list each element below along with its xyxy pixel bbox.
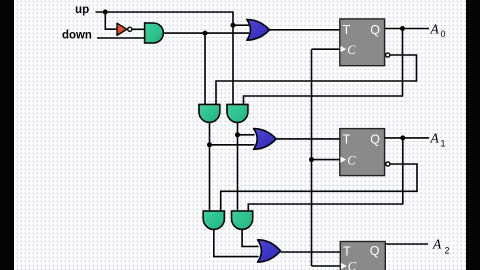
wire clock vertical xyxy=(311,49,313,266)
right pillar bar xyxy=(466,0,480,270)
AND gate AND2b (up chain) xyxy=(227,104,248,122)
svg-text:A: A xyxy=(432,236,442,251)
wire up vertical to AND2b input xyxy=(232,25,234,105)
wire Q2 to A2 xyxy=(385,243,428,245)
wire AND3a out to OR3 lower input xyxy=(214,229,259,256)
junction AND1-out branch xyxy=(203,31,208,36)
svg-text:Q: Q xyxy=(370,244,380,258)
wire Q1 feedback to AND3b xyxy=(248,138,402,212)
svg-text:T: T xyxy=(343,245,351,259)
svg-text:Q: Q xyxy=(370,133,380,147)
wire AND2b branch down to AND3b xyxy=(237,135,239,212)
wire to OR1 upper input xyxy=(233,24,249,26)
svg-text:down: down xyxy=(62,28,92,42)
AND gate AND1 (not-up AND down) xyxy=(145,23,164,43)
wire AND2a out to OR2 lower input xyxy=(210,122,255,145)
junction up-OR1 xyxy=(231,23,236,28)
svg-text:2: 2 xyxy=(445,246,450,256)
flip-flop U1 (T flip-flop, bit A0) xyxy=(340,19,385,66)
AND gate AND3a (down chain) xyxy=(203,211,224,229)
wire clock stub FF3 C xyxy=(312,265,341,267)
OR gate OR1 xyxy=(247,19,270,40)
svg-text:C: C xyxy=(347,43,356,57)
wire OR3 out to FF3 T xyxy=(281,251,341,253)
wire AND2b out to OR2 upper input xyxy=(238,122,255,135)
svg-text:A: A xyxy=(430,131,440,146)
wire clock stub FF2 C xyxy=(312,159,341,161)
wire clock stub FF1 C xyxy=(312,48,341,50)
wire Qbar0 feedback to AND2a xyxy=(216,55,417,105)
svg-text:up: up xyxy=(75,2,89,16)
svg-text:T: T xyxy=(343,133,351,147)
svg-text:Q: Q xyxy=(370,23,380,37)
wire Qbar1 feedback to AND3a xyxy=(221,164,417,212)
flip-flop U2 (T flip-flop, bit A1) xyxy=(340,129,385,176)
wire up vertical drop to OR1 branch xyxy=(232,11,234,25)
svg-text:T: T xyxy=(343,23,351,37)
wire AND1 out to OR1 lower input xyxy=(163,32,249,34)
AND gate AND3b (up chain) xyxy=(232,211,253,229)
svg-text:C: C xyxy=(347,154,356,168)
svg-text:A: A xyxy=(430,21,440,36)
junction AND2b-out xyxy=(235,132,240,137)
junction Q0 xyxy=(400,26,405,31)
wire AND2a branch down to AND3a xyxy=(209,145,211,212)
junction up-branch xyxy=(103,10,108,15)
wire OR1 out to FF1 T xyxy=(270,29,341,31)
wire Q1 to A1 xyxy=(385,137,429,139)
svg-text:0: 0 xyxy=(441,29,446,39)
AND gate AND2a (down chain) xyxy=(199,104,220,122)
wire up horizontal to corner xyxy=(96,11,234,13)
inverter NOT1 xyxy=(117,23,132,35)
wire OR2 out to FF2 T xyxy=(276,138,340,140)
wire Q0 to A0 xyxy=(385,28,429,30)
wire down to AND1 lower input xyxy=(97,37,145,39)
OR gate OR2 xyxy=(254,129,277,150)
pin Qbar bubble U2 xyxy=(386,162,390,166)
svg-text:1: 1 xyxy=(441,138,446,148)
wire AND3b out to OR3 upper input xyxy=(242,229,258,246)
wire AND1 branch down to AND2a input xyxy=(204,33,206,105)
wire branch down to inverter input xyxy=(105,12,117,29)
junction Q1 xyxy=(400,135,405,140)
wire Q0 feedback to AND2b xyxy=(244,29,403,106)
svg-text:C: C xyxy=(348,259,357,270)
flip-flop U3 (T flip-flop, bit A2) xyxy=(340,242,385,270)
OR gate OR3 xyxy=(258,240,281,262)
junction clock FF2 xyxy=(309,157,314,162)
wire inverter out to AND1 xyxy=(132,28,145,30)
left pillar bar xyxy=(0,0,14,270)
junction AND2a-out xyxy=(207,142,212,147)
pin Qbar bubble U1 xyxy=(386,53,390,57)
